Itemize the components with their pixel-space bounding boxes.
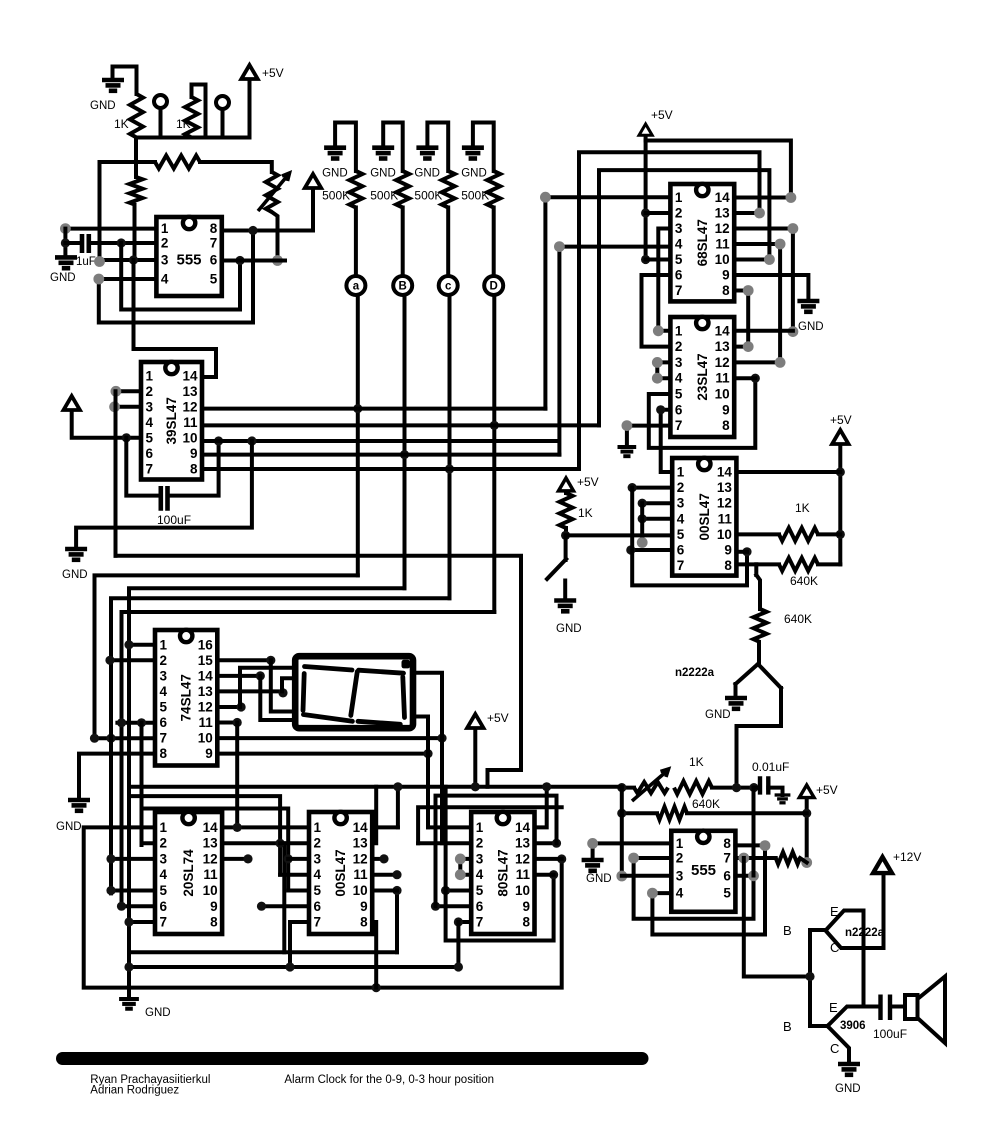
- junction row1/U12 pin7: [454, 962, 463, 971]
- junction U10 pin12: [243, 854, 252, 863]
- wire U10 pin5: [111, 889, 155, 893]
- display segments: [303, 667, 405, 725]
- wire T2 stub: [221, 109, 225, 138]
- svg-text:B: B: [399, 281, 407, 293]
- svg-text:5: 5: [210, 272, 218, 287]
- svg-text:12: 12: [515, 851, 530, 866]
- svg-text:5: 5: [723, 886, 731, 901]
- svg-text:2: 2: [160, 836, 168, 851]
- svg-text:14: 14: [198, 668, 214, 683]
- wire U11 pin2 stub: [280, 841, 309, 845]
- wire GND stub top-left: [113, 67, 137, 95]
- svg-text:14: 14: [203, 820, 219, 835]
- svg-text:12: 12: [203, 851, 218, 866]
- wire pin14 route: [260, 676, 298, 720]
- svg-text:C: C: [830, 940, 839, 955]
- node U4 pin14: [786, 192, 797, 203]
- wire C2 right to pin10 row: [168, 441, 219, 496]
- wire +5V drop to pins2/5: [644, 136, 648, 260]
- resistor R3 (horizontal): [155, 156, 200, 169]
- ground GND B: [372, 148, 394, 159]
- svg-text:8: 8: [160, 746, 168, 761]
- wire +5V stem: [473, 729, 477, 787]
- junction pin13: [278, 688, 287, 697]
- wire U12 pin5 loop to pin11: [446, 875, 554, 941]
- wire U10 pin6: [122, 904, 156, 908]
- title bar: [56, 1052, 649, 1065]
- wire U5 pin11 stub: [734, 376, 755, 380]
- junction rail/R6: [836, 530, 845, 539]
- wire D vertical: [492, 295, 496, 612]
- junction U12 pin13: [552, 839, 561, 848]
- terminal pad T2: [216, 96, 229, 109]
- ground GND D: [462, 148, 484, 159]
- ground GND Q1: [725, 698, 747, 709]
- wire U2 pin2/3 riser down to net-A row: [114, 391, 118, 556]
- svg-text:68SL47: 68SL47: [695, 219, 710, 266]
- wire T1 stub: [159, 108, 163, 138]
- svg-text:20SL74: 20SL74: [181, 849, 196, 897]
- svg-text:7: 7: [723, 851, 731, 866]
- ic U2 74LS93: [141, 362, 202, 480]
- wire U12 pin13 stub: [535, 841, 557, 845]
- node U12 pin4: [455, 869, 466, 880]
- wire U4 pin2: [646, 211, 671, 215]
- transistor Q3 3906: [810, 1024, 828, 1028]
- ic U6 74LS00 (right): [672, 458, 736, 576]
- svg-text:500K: 500K: [322, 189, 350, 203]
- wire +5V to U2 pin5: [72, 411, 141, 438]
- wire U10 pin2: [142, 841, 156, 845]
- node U7 pin4 corner: [647, 888, 658, 899]
- wire U5 pin5 loop to pin11: [649, 378, 756, 448]
- junction cap node: [749, 783, 758, 792]
- junction pin5/C2: [122, 433, 131, 442]
- wire +5V rail H1 bottom: [133, 785, 622, 789]
- svg-text:12: 12: [717, 496, 732, 511]
- svg-text:14: 14: [715, 323, 731, 338]
- wire U10 pin12 stub: [222, 857, 248, 861]
- resistor 500K (D): [487, 171, 500, 208]
- wire R3 right to RV1: [200, 162, 272, 172]
- svg-text:GND: GND: [414, 167, 440, 179]
- svg-text:640K: 640K: [692, 797, 720, 811]
- node U5 pin12: [775, 357, 786, 368]
- node U5 pin1: [653, 325, 664, 336]
- wire 500K D top bend: [473, 123, 494, 172]
- junction U10 pin3: [106, 854, 115, 863]
- svg-text:1uF: 1uF: [76, 256, 96, 268]
- node rail bottom: [801, 857, 812, 868]
- svg-text:11: 11: [516, 867, 531, 882]
- ic U7 555 timer (bottom): [671, 831, 735, 912]
- svg-text:10: 10: [715, 387, 730, 402]
- wire U4 pin6 to U5 pin2: [642, 275, 671, 347]
- wire U1 pin3 to U2 pin14: [134, 260, 217, 377]
- svg-text:10: 10: [715, 252, 730, 267]
- power +5V arrow (U1): [305, 174, 321, 188]
- wire U8 pin2: [108, 658, 155, 662]
- svg-text:7: 7: [160, 731, 168, 746]
- svg-text:80SL47: 80SL47: [495, 849, 510, 896]
- wire 500K B to terminal: [401, 208, 405, 277]
- capacitor C3 0.01uF: [760, 776, 768, 794]
- junction U11 pin11: [392, 870, 401, 879]
- svg-text:100uF: 100uF: [873, 1027, 907, 1041]
- resistor 500K (a): [349, 171, 362, 208]
- svg-text:B: B: [783, 1019, 792, 1034]
- power +5V arrow (U2 pin5): [64, 396, 80, 410]
- wire U12 pin12 stub: [535, 857, 562, 861]
- wire U10 pin3: [111, 857, 155, 861]
- wire U10 pin1 long loop (row2): [84, 827, 562, 987]
- wire U1 pin3: [100, 258, 157, 262]
- resistor R7 640K: [779, 558, 818, 571]
- junction B/L4: [400, 450, 409, 459]
- junction pin2/feedback: [117, 238, 126, 247]
- node pin2: [111, 386, 122, 397]
- wire R11 to rail bottom: [800, 858, 807, 863]
- svg-text:10: 10: [203, 883, 218, 898]
- trimmer RV2: [634, 782, 668, 793]
- wire U12 pin14 to H1: [535, 787, 547, 828]
- ground GND2 (1uF): [55, 257, 77, 268]
- wire U8 pin14: [217, 674, 260, 678]
- wire pin13 route: [282, 678, 298, 691]
- wire U7 pin8 stub: [735, 843, 765, 847]
- svg-text:3: 3: [160, 851, 168, 866]
- wire U8 pin9: [217, 752, 428, 756]
- wire U7 pin7 to transistor bases: [744, 858, 810, 977]
- svg-text:4: 4: [677, 511, 685, 526]
- svg-text:6: 6: [675, 268, 683, 283]
- wire U6 pin6: [631, 548, 672, 552]
- svg-text:2: 2: [676, 851, 684, 866]
- svg-text:9: 9: [722, 402, 730, 417]
- wire L2 riser to U4 pin10: [599, 170, 769, 425]
- wire U6 pin3-pin4 link: [640, 503, 644, 542]
- node U12 pin3: [455, 854, 466, 865]
- svg-text:11: 11: [183, 415, 198, 430]
- junction c/L5: [445, 464, 454, 473]
- svg-text:3: 3: [314, 851, 322, 866]
- svg-text:+5V: +5V: [487, 711, 509, 725]
- junction U6 pin2: [628, 483, 637, 492]
- junction U8 pin7: [90, 734, 99, 743]
- node U5 pin3: [652, 357, 663, 368]
- wire pin2-pin6 loop: [121, 243, 240, 310]
- wire +5V to U4 pin14: [646, 141, 791, 198]
- wire cap node drop to pin6: [752, 788, 756, 876]
- resistor R2 1K zigzag: [185, 97, 198, 138]
- junction pin6: [235, 256, 244, 265]
- resistor R6 1K: [779, 528, 818, 541]
- wire U11 pin13 riser to H1: [372, 787, 376, 843]
- wire C1 to pin2: [89, 241, 157, 245]
- svg-text:3: 3: [675, 221, 683, 236]
- wire U6 pin2-pin6-pin9 loop: [632, 488, 747, 586]
- wire net-A row to +5V jog: [116, 556, 522, 787]
- wire to C3: [754, 786, 760, 790]
- power +12V arrow: [873, 857, 892, 873]
- node U7 pin7 junction: [738, 853, 749, 864]
- junction pin2/gnd column: [61, 238, 70, 247]
- svg-text:3: 3: [677, 496, 685, 511]
- svg-text:13: 13: [203, 836, 219, 851]
- wire net-B row (a to U8 pin7): [95, 575, 358, 738]
- wire U6 pin14: [736, 470, 840, 474]
- svg-text:14: 14: [717, 465, 733, 480]
- wire U12 pin5 riser to H1: [444, 787, 448, 891]
- junction U12 pin11: [549, 870, 558, 879]
- svg-text:3906: 3906: [840, 1020, 866, 1032]
- wire U11 pin6: [262, 904, 310, 908]
- junction pin12: [237, 702, 246, 711]
- wire U7 pin4 loop to pin8: [652, 846, 765, 935]
- svg-text:12: 12: [353, 851, 368, 866]
- wire U5 pin7 to GND: [627, 426, 671, 447]
- junction pin3/output drop: [129, 255, 138, 264]
- svg-text:13: 13: [715, 206, 731, 221]
- node U5 pin7: [622, 420, 633, 431]
- svg-text:1: 1: [146, 368, 154, 383]
- wire Q1 emitter to GND: [734, 684, 738, 698]
- ground GND c: [416, 148, 438, 159]
- display DS1 7-segment: [295, 656, 413, 728]
- svg-text:GND: GND: [798, 321, 824, 333]
- resistor R1 1K (vertical): [130, 94, 143, 138]
- svg-text:1K: 1K: [578, 506, 593, 520]
- svg-text:500K: 500K: [370, 189, 398, 203]
- wire 500K c to terminal: [446, 208, 450, 277]
- svg-text:GND: GND: [90, 100, 116, 112]
- wire +5V to R5: [564, 492, 568, 493]
- wire switch lower contact: [563, 581, 567, 601]
- svg-text:3: 3: [160, 668, 168, 683]
- node pin4 corner: [93, 274, 104, 285]
- svg-text:10: 10: [353, 883, 368, 898]
- svg-text:6: 6: [160, 715, 168, 730]
- wire R3 left corner down to pin3 region: [100, 162, 156, 262]
- node U7 pin6: [748, 870, 759, 881]
- svg-text:2: 2: [314, 836, 322, 851]
- node pin3 left end: [94, 256, 105, 267]
- transistor Q1 N2222A: [736, 664, 759, 684]
- svg-text:GND: GND: [56, 821, 82, 833]
- wire U7 pin3: [622, 874, 672, 878]
- wire U12 pin6 over-route to pin13: [436, 796, 557, 907]
- svg-text:9: 9: [522, 899, 530, 914]
- svg-text:9: 9: [360, 899, 368, 914]
- svg-text:6: 6: [146, 446, 154, 461]
- node RV1/pin6 endpoint: [272, 255, 283, 266]
- svg-text:+5V: +5V: [830, 413, 852, 427]
- capacitor C2 100uF: [161, 486, 168, 511]
- svg-text:10: 10: [515, 883, 530, 898]
- wire H3 row: [142, 809, 289, 891]
- svg-text:7: 7: [160, 915, 168, 930]
- svg-text:GND: GND: [586, 873, 612, 885]
- resistor R4 (vertical, below bus): [130, 177, 143, 205]
- wire L5 U2 pin8: [202, 467, 579, 471]
- wire U10 pin7: [129, 920, 155, 924]
- svg-text:1: 1: [676, 836, 684, 851]
- svg-text:4: 4: [160, 867, 168, 882]
- svg-text:11: 11: [199, 715, 214, 730]
- node pin1 end: [60, 223, 71, 234]
- svg-text:23SL47: 23SL47: [695, 353, 710, 400]
- svg-text:11: 11: [715, 237, 730, 252]
- svg-text:12: 12: [715, 221, 730, 236]
- wire R4 bottom to pin3 node: [133, 205, 137, 261]
- svg-text:6: 6: [160, 899, 168, 914]
- svg-text:5: 5: [146, 430, 154, 445]
- svg-text:GND: GND: [50, 272, 76, 284]
- wire U2 pin3: [116, 405, 141, 409]
- svg-text:3: 3: [676, 868, 684, 883]
- svg-text:555: 555: [176, 252, 201, 269]
- junction a/L1: [353, 404, 362, 413]
- wire pin10 loop to GND: [76, 441, 252, 549]
- wire R7 right to rail: [818, 562, 840, 566]
- wire net-D row (c to U8 pin2): [111, 598, 450, 893]
- wire left node drop to pin3: [620, 788, 624, 876]
- wire U1 pin1: [65, 227, 156, 231]
- power +5V arrow (555#2): [799, 785, 814, 798]
- junction RV2 left: [617, 783, 626, 792]
- svg-text:13: 13: [515, 836, 531, 851]
- svg-text:GND: GND: [556, 623, 582, 635]
- wire U8 pin7: [95, 736, 156, 740]
- wire U11 pin5 stub: [288, 889, 309, 893]
- power +5V arrow (top-left): [241, 65, 257, 79]
- svg-text:E: E: [830, 904, 839, 919]
- wire pin10 route: [414, 673, 442, 738]
- speaker SP1: [905, 995, 918, 1019]
- svg-text:1: 1: [675, 190, 683, 205]
- wire row952: [129, 950, 397, 954]
- wire U12 pin7 drop: [456, 922, 460, 967]
- svg-text:1K: 1K: [689, 755, 704, 769]
- wire U8 pin12: [217, 705, 241, 709]
- svg-text:500K: 500K: [414, 189, 442, 203]
- wire U1 pin8: [222, 229, 313, 233]
- ground GND a: [324, 148, 346, 159]
- resistor R5 1K (switch): [560, 493, 573, 528]
- ground GND bottom: [119, 999, 139, 1009]
- junction U11 pin6: [257, 902, 266, 911]
- node U4 pin8: [743, 285, 754, 296]
- wire R6 right: [818, 532, 840, 536]
- wire 500K c top bend: [427, 123, 448, 172]
- wire U7 pin2 loop to pin6: [634, 858, 754, 919]
- wire C3 right to GND: [768, 788, 782, 795]
- svg-text:11: 11: [353, 867, 368, 882]
- node U7 pin1 corner: [587, 838, 598, 849]
- wire +5V rail U6: [838, 445, 842, 564]
- wire a vertical: [356, 295, 360, 575]
- wire U11 pin4 stub: [280, 873, 309, 877]
- svg-text:74SL47: 74SL47: [179, 674, 194, 721]
- wire U4 pin11 to U5 pin12: [734, 244, 780, 362]
- wire U8 pin13: [217, 689, 282, 693]
- svg-text:3: 3: [161, 253, 169, 268]
- wire net-C row (B to U8 pin1): [129, 588, 405, 999]
- svg-text:2: 2: [160, 653, 168, 668]
- svg-text:1K: 1K: [114, 117, 129, 131]
- transistor Q2 N2222A (bottom right): [810, 928, 826, 932]
- svg-text:9: 9: [210, 899, 218, 914]
- svg-text:1: 1: [314, 820, 322, 835]
- node U4 pin12: [788, 223, 799, 234]
- node below pin4: [637, 537, 648, 548]
- svg-text:8: 8: [522, 915, 530, 930]
- junction rail/R10: [802, 809, 811, 818]
- junction pin15: [266, 656, 275, 665]
- svg-text:13: 13: [182, 384, 198, 399]
- svg-text:+5V: +5V: [577, 475, 599, 489]
- switch SW1 blade: [564, 535, 568, 560]
- svg-text:8: 8: [722, 283, 730, 298]
- terminal pad T1: [154, 95, 167, 108]
- node U7 pin3 left: [616, 871, 627, 882]
- wire U8 pin6: [117, 721, 155, 725]
- svg-text:GND: GND: [835, 1083, 861, 1095]
- svg-text:GND: GND: [705, 709, 731, 721]
- svg-text:+5V: +5V: [816, 783, 838, 797]
- wire trimmer RV2 row: [622, 786, 634, 790]
- svg-text:2: 2: [476, 836, 484, 851]
- svg-text:500K: 500K: [461, 189, 489, 203]
- junction S6/pin14: [233, 823, 242, 832]
- ground GND U7: [582, 860, 604, 871]
- svg-text:7: 7: [677, 558, 685, 573]
- junction U8 pin2: [105, 656, 114, 665]
- resistor R11 (555#2 right): [776, 852, 800, 864]
- svg-text:1: 1: [160, 637, 168, 652]
- ground GND U5pin7: [618, 447, 637, 456]
- wire U4 pin9 to GND: [734, 275, 808, 301]
- wire U2 pin10 row (L3): [202, 439, 559, 443]
- junction row2/U11 pin8: [372, 983, 381, 992]
- wire U6 pin3: [642, 501, 672, 505]
- svg-text:13: 13: [715, 339, 731, 354]
- junction U12 pin6: [431, 902, 440, 911]
- wire pin9 route: [414, 717, 428, 754]
- wire U8 pin11: [217, 721, 237, 725]
- wire L1 U2 pin12: [202, 407, 545, 411]
- svg-text:11: 11: [715, 371, 730, 386]
- wire U11 pin8 drop to row2: [372, 922, 376, 988]
- wire U6 pin2: [632, 486, 672, 490]
- wire C4 to speaker: [890, 1005, 905, 1009]
- wire U8 pin1: [129, 643, 155, 647]
- wire U8 pin15: [217, 658, 270, 662]
- junction U11 pin10: [392, 886, 401, 895]
- svg-text:B: B: [783, 923, 792, 938]
- node U7 pin2 corner: [628, 853, 639, 864]
- junction U12 pin5: [441, 886, 450, 895]
- svg-text:7: 7: [675, 283, 683, 298]
- svg-text:5: 5: [675, 252, 683, 267]
- wire U6 pin9 stub: [736, 550, 747, 554]
- junction row1/U11 pin7: [285, 962, 294, 971]
- terminal a: [346, 276, 365, 295]
- wire U7 pin7: [735, 856, 775, 860]
- wire +5V rail 555#2: [805, 800, 809, 863]
- junction S2/pin7 crossing: [106, 734, 115, 743]
- wire U11 pin7 drop to bottom rail: [290, 922, 309, 967]
